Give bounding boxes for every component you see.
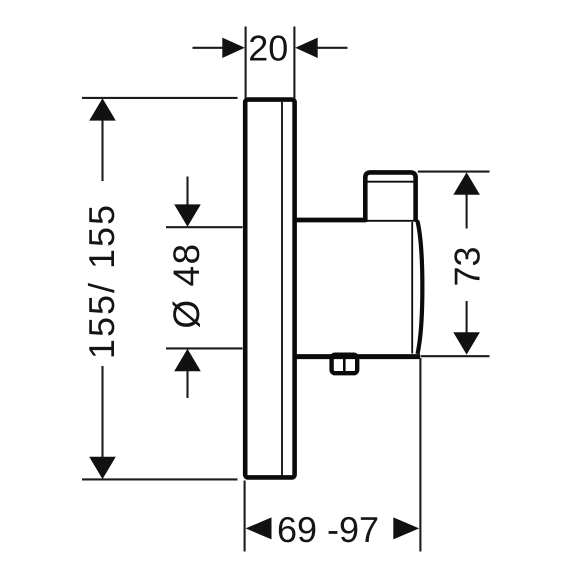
svg-text:155/ 155: 155/ 155	[81, 203, 122, 359]
svg-text:73: 73	[447, 246, 488, 286]
svg-text:Ø 48: Ø 48	[166, 242, 207, 328]
svg-text:20: 20	[248, 27, 288, 68]
svg-text:69 -97: 69 -97	[277, 509, 379, 550]
